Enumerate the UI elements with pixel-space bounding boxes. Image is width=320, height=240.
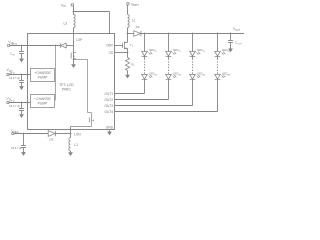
ground C5 (19, 114, 24, 118)
ground L2 (70, 151, 72, 152)
wire LED string 3 anode (192, 34, 194, 52)
wire LED string 2 dashed middle (168, 56, 170, 58)
wire diode to LXP node (66, 45, 73, 47)
LED LED31 (190, 52, 196, 57)
wire LED string 4 cathode to OUT4 (217, 79, 219, 111)
svg-text:+CHARGE: +CHARGE (34, 71, 51, 75)
diode D3 (48, 131, 55, 137)
LED LED21 (166, 52, 172, 57)
wire L3 to LXP pin (73, 28, 75, 34)
node LED string 1 rail junction (144, 33, 146, 35)
LED LED11 (142, 52, 148, 57)
wire VGL to charge pump 2 (9, 102, 31, 104)
capacitor COUT (230, 33, 232, 35)
wire CS pin (115, 52, 128, 54)
svg-text:LXP: LXP (76, 38, 83, 42)
wire LXN internal to pin (71, 126, 92, 128)
diode D2 (128, 33, 134, 35)
svg-text:C6 4.7 µF: C6 4.7 µF (11, 147, 23, 150)
node VBATT terminal (127, 3, 129, 5)
wire L1 to switch node (127, 28, 129, 34)
wire VBATT to L1 (127, 5, 129, 15)
wire LED string 2 anode (168, 34, 170, 52)
node LED string 3 rail junction (192, 33, 194, 35)
svg-text:OUT1: OUT1 (104, 92, 113, 96)
LED LED4N (217, 73, 219, 74)
wire LED string 3 dashed middle (192, 56, 194, 58)
svg-text:DRV: DRV (106, 44, 114, 48)
LED LED2N (168, 73, 170, 74)
wire VNEG to D3 (14, 133, 48, 135)
LED LED41 (215, 52, 221, 57)
svg-text:D2: D2 (136, 25, 140, 29)
inductor L3 (74, 15, 76, 28)
wire NMOS source to ground (73, 60, 75, 65)
transistor T1 external NMOS (127, 34, 129, 43)
wire D3 to LXN node (56, 133, 71, 135)
svg-text:PMIC: PMIC (62, 88, 71, 92)
ground C4 (19, 86, 24, 90)
wire VGH to charge pump 1 (9, 74, 31, 76)
svg-text:OUT2: OUT2 (104, 98, 113, 102)
transistor internal LXN NMOS (88, 118, 90, 123)
svg-text:C5 4.7 µF: C5 4.7 µF (9, 105, 21, 108)
svg-text:PUMP: PUMP (38, 102, 49, 106)
svg-text:PUMP: PUMP (38, 76, 49, 80)
wire internal VCC rail to charge pumps (55, 46, 57, 101)
transistor internal boost NMOS (70, 53, 72, 59)
IC U1 TFT-LCD PMIC box (28, 34, 115, 130)
ground GND pin (107, 132, 112, 136)
wire LED string 2 cathode to OUT2 (168, 79, 170, 99)
node LXN junction (70, 133, 72, 135)
capacitor C5 (21, 102, 23, 104)
wire VCC pin internal (28, 45, 61, 47)
svg-text:GND: GND (106, 125, 114, 129)
svg-text:CS: CS (109, 51, 113, 55)
svg-text:OUT3: OUT3 (104, 104, 113, 108)
ground internal (71, 64, 76, 68)
LED LED3N (192, 73, 194, 74)
wire VOUT rail (141, 33, 244, 35)
wire LED string 4 anode (217, 34, 219, 52)
charge pump 1 positive (31, 69, 55, 82)
svg-text:L2: L2 (74, 143, 78, 147)
inductor L1 (128, 15, 130, 28)
charge pump 2 negative (31, 95, 55, 108)
svg-text:OUT4: OUT4 (104, 110, 113, 114)
wire LED string 1 anode (144, 34, 146, 52)
wire VIN vertical (73, 6, 75, 15)
wire LED string 4 dashed middle (217, 56, 219, 58)
ground R1 (125, 75, 130, 79)
ground COUT (228, 49, 233, 53)
svg-text:TFT-LCD: TFT-LCD (59, 83, 74, 87)
capacitor C6 (23, 133, 25, 135)
node LED string 4 rail junction (217, 33, 219, 35)
wire LED string 1 dashed middle (144, 56, 146, 58)
node VIN terminal (71, 4, 73, 6)
svg-text:C4 4.7 µF: C4 4.7 µF (9, 77, 21, 80)
node LED string 2 rail junction (168, 33, 170, 35)
svg-text:D3: D3 (50, 138, 54, 142)
ground C6 (21, 152, 26, 156)
svg-text:L3: L3 (64, 22, 68, 26)
wire internal rail to LXN switch (74, 59, 88, 61)
wire LED string 3 cathode to OUT3 (192, 79, 194, 105)
wire VIN to IC top pin (74, 11, 110, 13)
wire T1 source to R1 (127, 48, 129, 57)
wire LED string 1 cathode to OUT1 (144, 79, 146, 93)
diode internal rectifier (59, 43, 61, 48)
pin LXP wire (73, 34, 75, 60)
LED LED1N (144, 73, 146, 74)
inductor L2 (70, 134, 72, 138)
wire VCC (10, 45, 28, 47)
capacitor CIN (21, 45, 23, 47)
ground CIN (19, 59, 24, 63)
resistor R1 (125, 58, 129, 71)
svg-text:L1: L1 (132, 19, 136, 23)
capacitor C4 (21, 74, 23, 76)
svg-text:LXN: LXN (74, 132, 81, 136)
wire DRV pin to T1 gate (115, 45, 123, 47)
svg-text:−CHARGE: −CHARGE (34, 97, 51, 101)
